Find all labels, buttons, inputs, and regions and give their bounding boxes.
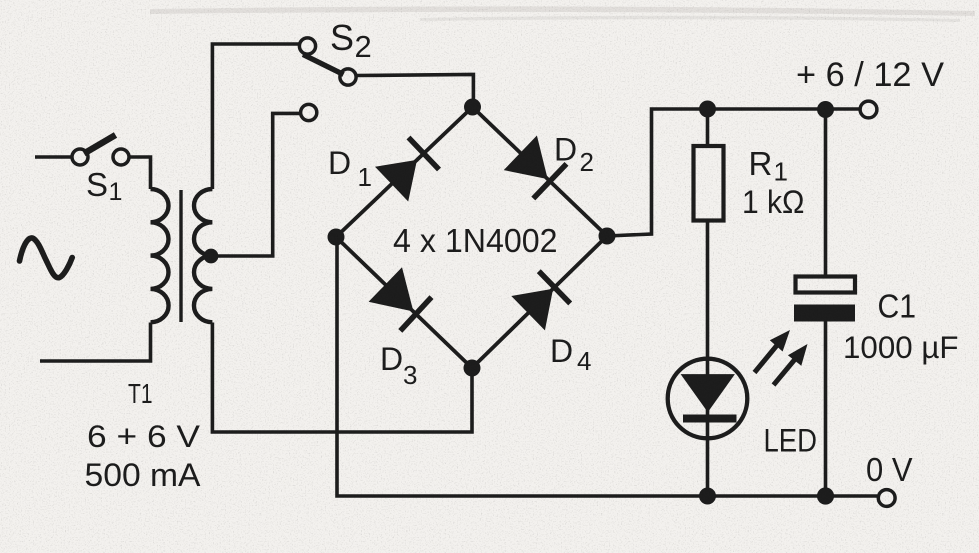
node R1 top (699, 101, 716, 118)
capacitor C1 top plate (796, 277, 856, 293)
diode D3 (369, 267, 414, 311)
LED light arrow 1 (755, 344, 779, 373)
node C1 top (817, 101, 834, 118)
wire S2 right contact to bridge top vertex (356, 75, 474, 108)
terminal +V (860, 101, 877, 118)
node bridge bottom (464, 360, 481, 377)
scan smudge top edge (150, 6, 975, 16)
resistor R1 (694, 146, 724, 221)
node center tap (204, 249, 219, 264)
switch S1 contact circles (72, 149, 88, 165)
switch S2 contact circles (299, 38, 315, 54)
wire S1 to transformer primary top (129, 157, 150, 189)
node bridge right (599, 228, 616, 245)
switch S2 lever (303, 55, 344, 75)
wire C1 top (824, 110, 828, 278)
transformer T1 primary coil (151, 189, 169, 322)
diode D1 (375, 160, 417, 202)
capacitor C1 bottom plate (794, 305, 855, 322)
node bridge left (328, 229, 345, 246)
AC sine symbol (20, 238, 73, 278)
node bridge top (464, 99, 481, 116)
node LED bottom rail (699, 488, 716, 505)
wire secondary bottom lead to bridge bottom vertex (212, 323, 472, 433)
wire R1 bottom through LED to 0V rail (706, 221, 710, 497)
diode D2 (504, 136, 548, 180)
diode D4 (511, 289, 553, 331)
LED cathode bar (683, 415, 737, 423)
terminal 0V (878, 490, 895, 507)
node C1 bottom rail (817, 487, 834, 504)
LED circle (668, 359, 748, 439)
LED triangle (681, 374, 735, 412)
wire bridge right vertex to top rail and +V terminal (607, 109, 859, 236)
transformer T1 secondary coil (194, 189, 212, 322)
wire AC input top stub (35, 155, 72, 159)
bridge edges (336, 107, 607, 368)
transformer T1 core (179, 190, 182, 322)
LED light arrow 2 (774, 358, 797, 385)
wire C1 bottom (824, 320, 828, 496)
wire AC input bottom stub to primary bottom (40, 323, 151, 362)
wire bridge left vertex down to 0V rail and terminal (337, 237, 877, 496)
switch S1 lever (84, 135, 116, 154)
wire R1 top (706, 109, 710, 146)
wire center tap to S2 lower contact (211, 113, 301, 256)
wire secondary top lead to S2 left contact (212, 44, 299, 189)
